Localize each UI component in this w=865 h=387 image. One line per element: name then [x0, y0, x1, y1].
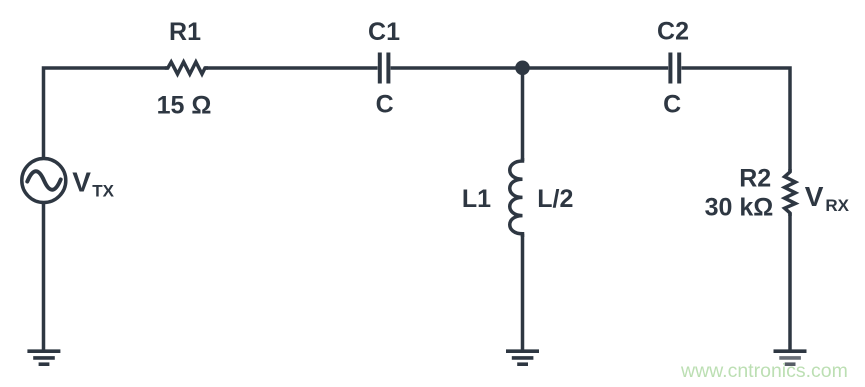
svg-text:RX: RX: [825, 196, 849, 215]
svg-text:C2: C2: [657, 18, 689, 46]
svg-text:V: V: [72, 167, 91, 198]
svg-text:www.cntronics.com: www.cntronics.com: [680, 360, 848, 382]
svg-text:C1: C1: [368, 18, 400, 46]
svg-text:R2: R2: [739, 165, 771, 193]
wire R1 to C1: [205, 66, 378, 70]
svg-text:C: C: [663, 91, 681, 119]
wire L1 to middle ground: [521, 234, 525, 351]
ground right: [774, 351, 807, 364]
capacitor C2: [670, 53, 679, 84]
wire left branch: top-left corner from source up to R1: [44, 68, 168, 159]
source V_TX sine wave: [27, 171, 60, 190]
svg-text:L1: L1: [462, 185, 491, 213]
svg-text:L/2: L/2: [537, 185, 573, 213]
wire R2 to right ground: [788, 213, 792, 351]
svg-text:V: V: [805, 181, 824, 212]
source V_TX circle: [22, 159, 66, 203]
svg-text:15 Ω: 15 Ω: [157, 92, 212, 120]
wire C1 to node A: [391, 66, 523, 70]
ground left: [27, 351, 60, 364]
node A junction dot: [515, 61, 530, 76]
svg-text:30 kΩ: 30 kΩ: [705, 194, 774, 222]
svg-text:R1: R1: [169, 18, 201, 46]
wire source to left ground: [42, 203, 46, 352]
svg-text:C: C: [376, 91, 394, 119]
resistor R2: [785, 169, 796, 216]
svg-text:TX: TX: [92, 182, 114, 201]
inductor L1: [510, 158, 523, 237]
wire C2 to R2: top-right corner down: [681, 68, 790, 172]
capacitor C1: [380, 53, 389, 84]
wire node A down to L1: [521, 68, 525, 161]
ground middle: [506, 351, 539, 364]
resistor R1: [165, 62, 208, 74]
wire node A to C2: [523, 66, 669, 70]
